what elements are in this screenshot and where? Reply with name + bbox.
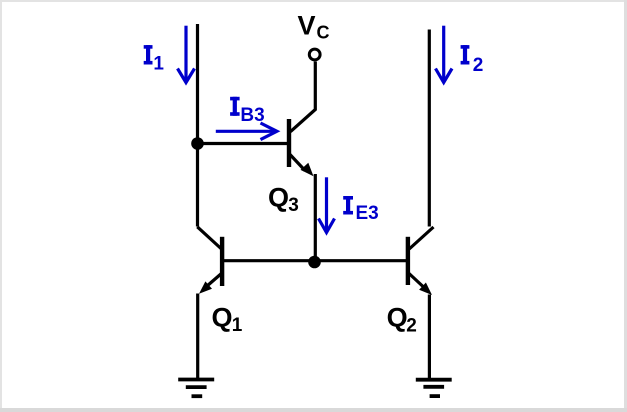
label Q3 [268,183,299,217]
svg-text:1: 1 [153,53,164,74]
Q2 emitter lead with arrow [409,273,424,287]
border frame [0,0,627,2]
current arrow I2 [436,26,453,83]
Q1 emitter lead with arrow [207,273,222,286]
svg-text:Q: Q [268,183,289,213]
svg-text:B3: B3 [240,105,264,126]
Q1 collector lead [197,227,221,249]
label IE3 [343,196,379,224]
current arrow IE3 [319,177,335,232]
svg-text:Q: Q [212,302,233,332]
wire: left vertical (I1 branch into Q1 collector) [196,24,199,227]
transistor Q2 (NPN, base bar) [406,237,410,285]
wire: Q1 emitter down to ground [196,294,199,380]
Q3 emitter lead with arrow [290,155,305,171]
current arrow I1 [178,26,195,83]
svg-text:1: 1 [232,315,243,336]
transistor Q3 (NPN, base bar) [287,119,291,167]
ground (Q1) [178,380,214,397]
node B (junction dot: Q3 emitter / rail) [308,256,321,269]
wire: Q3 base wire from node A [198,142,289,145]
svg-text:Q: Q [387,303,408,333]
label IB3 [230,97,265,126]
label Q2 [387,303,417,337]
svg-text:3: 3 [288,195,299,216]
label VC [298,10,330,42]
label Q1 [212,302,243,336]
svg-text:2: 2 [406,316,417,337]
Q2 collector lead [409,227,433,249]
label I2 [461,45,484,76]
wire: right vertical (I2 branch into Q2 collector) [428,30,431,227]
current arrow IB3 [216,123,277,140]
Q3 collector lead [290,62,315,132]
ground (Q2) [416,380,452,396]
terminal VC (open circle) [309,49,320,60]
wire: bottom rail Q1 base - Q2 base [222,259,408,262]
transistor Q1 (NPN, mirrored, base bar) [220,237,224,286]
svg-text:2: 2 [473,55,484,76]
svg-text:E3: E3 [356,203,379,224]
svg-text:V: V [298,10,316,40]
wire: Q2 emitter down to ground [428,295,431,382]
node A (junction dot: Q1 collector / Q3 base) [191,137,204,150]
label I1 [144,45,165,74]
svg-text:C: C [317,22,330,42]
wire: Q3 emitter down to center node [314,174,317,262]
